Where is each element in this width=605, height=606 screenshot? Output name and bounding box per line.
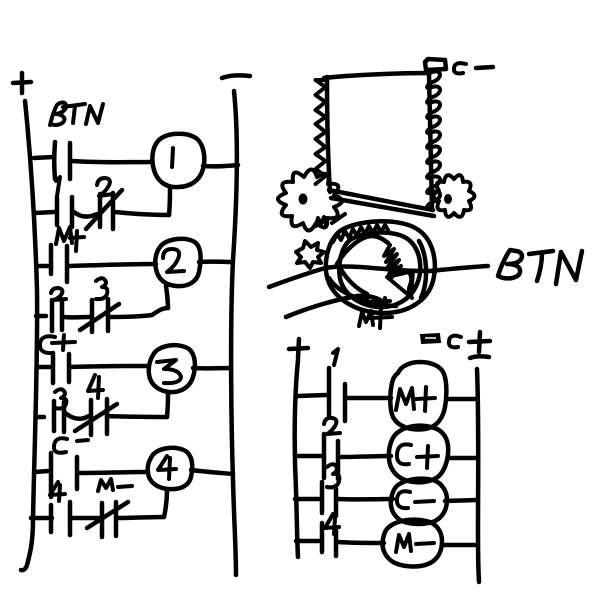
coil C- box symbol bbox=[425, 59, 446, 70]
contact NC M- seal4 bbox=[87, 502, 128, 537]
label C+ bbox=[40, 335, 75, 353]
coil CR4 circle bbox=[148, 448, 192, 489]
wire bottom rung4 left bbox=[296, 539, 320, 544]
finger scribble bbox=[384, 245, 401, 277]
label C+ in coil bbox=[397, 444, 438, 468]
wire bottom rung4 to coil bbox=[338, 542, 384, 543]
wire seal2 right bbox=[110, 308, 168, 317]
label C- in coil bbox=[397, 491, 434, 508]
wire coil C- to rail bbox=[445, 500, 477, 501]
wire bottom rung1 to coil bbox=[347, 396, 391, 401]
left rail plus terminal bbox=[13, 73, 31, 93]
wire bottom rung2 to coil bbox=[340, 456, 391, 457]
wire rung3 left bbox=[37, 365, 51, 370]
digit 4 in coil bbox=[158, 456, 176, 479]
wire seal3 up to coil3 bbox=[167, 393, 168, 417]
contact NO 4 seal4 bbox=[51, 502, 70, 535]
door bottom edge line1 bbox=[329, 190, 433, 210]
thumb triangle bbox=[387, 271, 413, 298]
wire coil3 to right rail bbox=[193, 366, 231, 371]
right bush dot bbox=[444, 194, 452, 204]
bottom ladder left rail bbox=[295, 360, 298, 557]
label 4 seal3 bbox=[88, 375, 103, 398]
thumb spiky shape bbox=[296, 241, 324, 268]
digit 2 in coil bbox=[163, 249, 184, 272]
label M- in coil bbox=[396, 534, 434, 552]
wire rung4 to coil bbox=[79, 472, 146, 473]
right power rail bbox=[231, 91, 237, 575]
coil CR1 circle bbox=[152, 134, 204, 187]
contact NC 2 seal1 bbox=[86, 190, 122, 229]
right rail minus terminal bbox=[222, 75, 250, 78]
label M+ in coil bbox=[396, 387, 435, 411]
hand mitten outline bbox=[337, 236, 388, 264]
contact NC 4 seal3 bbox=[75, 399, 117, 435]
wire seal3 right bbox=[107, 416, 167, 417]
label plus bottom right bbox=[469, 332, 490, 352]
wire rung2 left bbox=[37, 264, 51, 269]
contact C+ rung3 bbox=[53, 353, 69, 383]
bottom coil box symbol bbox=[421, 334, 440, 343]
wire seal1 up to coil1 bbox=[169, 188, 170, 215]
coil M+ blob bbox=[390, 362, 446, 430]
label 2 bottom rung2 bbox=[324, 418, 340, 434]
left bush splat bbox=[278, 170, 342, 231]
door left spring squiggle bbox=[316, 80, 326, 184]
digit 3 in coil bbox=[157, 360, 181, 383]
arm bottom line bbox=[286, 296, 385, 317]
wire seal1 left bbox=[35, 212, 54, 213]
label M+ bbox=[56, 227, 84, 251]
wire coil1 to right rail bbox=[203, 165, 238, 166]
wire rung1 left bbox=[34, 157, 53, 158]
door bottom edge line2 bbox=[331, 198, 434, 216]
contact 3 bottom rung3 bbox=[322, 482, 336, 516]
wire seal1 right bbox=[115, 212, 169, 215]
arm top line to BTN pointer bbox=[269, 266, 488, 287]
contact NO 2 seal2 bbox=[52, 300, 62, 331]
wire coil M+ to rail bbox=[447, 397, 477, 402]
hand bottom fold bbox=[340, 268, 367, 294]
wire seal3 left bbox=[36, 415, 44, 420]
wire seal2 left bbox=[36, 314, 46, 319]
wire seal1 mid bbox=[74, 212, 97, 216]
wire rung2 to coil bbox=[69, 264, 156, 266]
wire coil C+ to rail bbox=[449, 456, 477, 461]
wire bottom rung3 to coil bbox=[338, 497, 393, 502]
label 3 seal2 bbox=[96, 278, 107, 299]
label M- seal4 bbox=[98, 479, 132, 491]
label C- bbox=[54, 438, 88, 452]
wire seal4 left bbox=[31, 516, 52, 521]
label c bottom right bbox=[449, 336, 461, 348]
contact M+ rung2 bbox=[51, 245, 67, 282]
label M- under door bbox=[316, 214, 345, 226]
label 3 bottom rung3 bbox=[327, 464, 339, 487]
wire bottom rung1 left bbox=[298, 395, 326, 396]
label minus top right bbox=[476, 67, 493, 68]
bottom ladder plus terminal bbox=[289, 339, 308, 358]
contact 4 bottom rung4 bbox=[322, 523, 336, 556]
wire rung4 left bbox=[35, 471, 48, 472]
wire rung3 to coil bbox=[71, 366, 148, 367]
label 4 bottom rung4 bbox=[325, 514, 339, 534]
digit 1 in coil bbox=[172, 148, 173, 167]
contact NO 1 seal1 bbox=[57, 197, 72, 227]
wire coil2 to right rail bbox=[199, 259, 231, 264]
contact BTN rung1 bbox=[54, 142, 70, 179]
contact 1 bottom rung1 bbox=[329, 368, 345, 421]
label 4 seal4 bbox=[50, 482, 65, 501]
wire bottom rung3 left bbox=[295, 497, 320, 502]
wire seal2 link bbox=[64, 315, 90, 320]
contact NC 3 seal2 bbox=[80, 299, 119, 332]
label c top right bbox=[454, 63, 466, 73]
knuckle zigzag bbox=[333, 225, 388, 242]
label BTN big bbox=[498, 250, 582, 284]
bottom ladder right rail bbox=[477, 369, 479, 582]
wire bottom rung2 left bbox=[296, 454, 322, 459]
coil C+ blob bbox=[389, 426, 448, 483]
label 1 bottom rung1 bbox=[333, 349, 338, 365]
label M+ under fist bbox=[359, 306, 392, 328]
door right edge line bbox=[429, 74, 432, 210]
left bush dot bbox=[299, 194, 308, 205]
door top edge bbox=[324, 73, 429, 78]
wire seal4 right bbox=[118, 517, 164, 518]
wire seal4 link bbox=[73, 516, 100, 521]
left power rail bbox=[21, 101, 37, 570]
hand bottom arc bbox=[329, 278, 396, 306]
hand fist outer circle bbox=[326, 221, 435, 313]
label 3 seal3 bbox=[55, 389, 66, 408]
coil CR2 circle bbox=[155, 239, 200, 286]
coil C- blob bbox=[391, 479, 447, 524]
contact C- rung4 bbox=[51, 453, 77, 497]
door left edge line bbox=[327, 77, 330, 192]
right bush splat bbox=[434, 175, 475, 217]
wire coil4 to right rail bbox=[191, 470, 233, 474]
wire coil M- to rail bbox=[442, 543, 477, 548]
label 1 seal1 bbox=[56, 177, 60, 196]
label BTN bbox=[50, 103, 103, 125]
label 2 seal1 bbox=[97, 178, 113, 196]
contact NO 3 seal3 bbox=[54, 401, 64, 432]
label minus bottom right bbox=[470, 356, 489, 358]
wire seal4 up to coil4 bbox=[164, 490, 167, 517]
button symbol under fist bbox=[362, 298, 390, 305]
wire seal2 up to coil2 bbox=[166, 286, 168, 308]
contact 2 bottom rung2 bbox=[324, 434, 338, 479]
hand fist right double arc bbox=[419, 241, 426, 298]
coil M- blob bbox=[382, 520, 442, 567]
label 2 seal2 bbox=[51, 288, 66, 300]
wire seal3 link bbox=[64, 412, 89, 419]
coil CR3 circle bbox=[149, 345, 195, 392]
door right spring squiggle bbox=[427, 71, 440, 208]
wire rung1 to coil bbox=[72, 161, 152, 162]
hand fist inner circle bbox=[339, 232, 420, 307]
